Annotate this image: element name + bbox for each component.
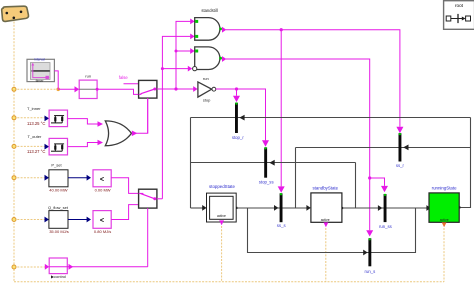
svg-text:runningState: runningState: [432, 186, 457, 191]
svg-text:run: run: [203, 76, 209, 81]
svg-text:P_set: P_set: [51, 163, 62, 168]
svg-text:ss_s: ss_s: [277, 223, 286, 228]
svg-text:0.00 MW: 0.00 MW: [95, 187, 111, 192]
svg-text:run: run: [85, 74, 91, 79]
svg-text:standstill: standstill: [201, 8, 217, 13]
svg-text:113.25 °C: 113.25 °C: [27, 121, 45, 126]
svg-text:113.27 °C: 113.27 °C: [27, 149, 45, 154]
svg-text:stop_r: stop_r: [232, 135, 245, 140]
svg-text:<: <: [100, 215, 104, 224]
svg-text:T_outer: T_outer: [28, 134, 42, 139]
svg-text:false: false: [119, 75, 129, 80]
svg-text:ss_r: ss_r: [396, 163, 405, 168]
svg-text:root: root: [455, 3, 464, 8]
svg-text:0.80 MJ/s: 0.80 MJ/s: [94, 229, 111, 234]
svg-text:run_ss: run_ss: [379, 224, 392, 229]
svg-text:Q_flow_set: Q_flow_set: [48, 205, 69, 210]
svg-text:35.00 MJ/s: 35.00 MJ/s: [49, 229, 69, 234]
svg-text:timer: timer: [36, 79, 45, 83]
svg-text:active: active: [440, 218, 449, 222]
svg-text:stoppedState: stoppedState: [209, 184, 235, 189]
svg-text:interval: interval: [34, 58, 45, 62]
svg-text:<: <: [100, 174, 104, 183]
svg-text:stop_ss: stop_ss: [259, 179, 274, 184]
svg-text:active: active: [321, 218, 330, 222]
svg-text:40.00 MW: 40.00 MW: [49, 187, 67, 192]
svg-text:T_inner: T_inner: [27, 106, 41, 111]
svg-text:▶control: ▶control: [51, 274, 66, 279]
svg-text:active: active: [217, 214, 226, 218]
svg-text:standbyState: standbyState: [312, 186, 338, 191]
svg-text:stop: stop: [203, 97, 211, 102]
svg-text:run_s: run_s: [365, 269, 376, 274]
